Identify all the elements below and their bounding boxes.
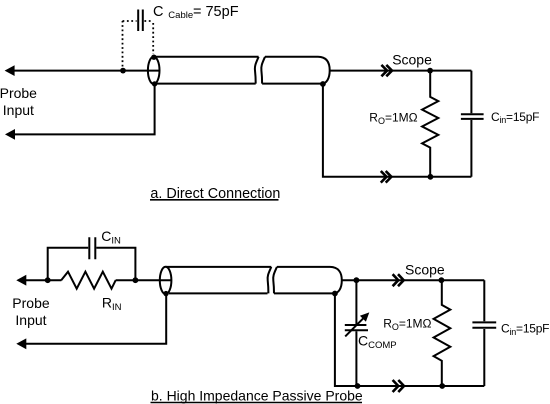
arrowhead: probe input bottom arrow (circuit a) [5, 129, 15, 140]
wire: scope right side vertical (circuit a, interrupted by C_in) [470, 71, 472, 177]
wire: scope bottom wire (circuit b) [335, 294, 484, 387]
coax cable b: break right curve [273, 267, 277, 294]
svg-text:CCOMP: CCOMP [358, 332, 397, 351]
resistor R_O (circuit a) [422, 71, 438, 177]
coax cable b: cylinder bottom line (right of break) [274, 292, 335, 294]
arrowhead: probe input top arrow (circuit a) [5, 65, 15, 76]
chevron marks on scope top wire (circuit a) [381, 65, 392, 76]
node: scope input junction dot (circuit a) [427, 68, 433, 74]
coax cable b: cylinder top line (left of break) [166, 266, 271, 268]
node: junction dot right of R_IN (circuit b) [133, 277, 139, 283]
wire: dotted vertical from junction to C_Cable left lead [122, 21, 124, 67]
wire: C_COMP branch vertical (interrupted by plates) [355, 280, 357, 386]
svg-text:Cable: Cable [168, 10, 193, 21]
resistor R_IN (circuit b) [61, 272, 115, 289]
arrowhead: probe input top arrow (circuit b) [16, 275, 26, 286]
node: junction dot at C_COMP top (circuit b) [354, 277, 360, 283]
wire: cable a shield bottom to probe return (circuit a) [12, 84, 154, 134]
wire: scope bottom wire (circuit a) [323, 84, 472, 177]
svg-text:Input: Input [15, 312, 46, 328]
wire: cable b shield bottom to probe return (circuit b) [24, 294, 167, 344]
underline for caption b [151, 402, 363, 404]
coax cable a: break right curve [261, 57, 265, 84]
coax cable b: left end ellipse [160, 267, 172, 294]
node: scope bottom junction dot (circuit a) [428, 174, 434, 180]
coax cable a: cylinder top line (left of break) [154, 56, 259, 58]
coax cable b: break left curve [268, 267, 272, 294]
chevron marks on scope top wire (circuit b) [393, 274, 404, 286]
svg-text:RIN: RIN [102, 294, 122, 313]
coax cable a: cylinder top line (right of break) and right end cap [265, 57, 330, 84]
capacitor C_COMP plates [345, 325, 368, 330]
svg-text:CIN: CIN [101, 228, 121, 247]
svg-text:b. High Impedance Passive Prob: b. High Impedance Passive Probe [151, 388, 363, 404]
svg-text:= 75pF: = 75pF [193, 4, 239, 20]
coax cable a: break left curve [255, 57, 259, 84]
wire: dotted horizontal C_Cable left lead [123, 20, 137, 22]
wire: C_IN branch right lead [96, 248, 135, 280]
arrowhead: C_COMP arrow tip [360, 312, 369, 321]
svg-text:C: C [153, 4, 163, 20]
coax cable a: cylinder bottom line (left of break) [157, 83, 256, 85]
wire: dotted vertical from C_Cable to cable shield top [152, 23, 154, 54]
node: dot at cable a shield top [151, 55, 156, 60]
node: dot at cable a shield bottom [152, 81, 157, 86]
coax cable a: cylinder bottom line (right of break) [262, 83, 323, 85]
node: junction dot left of R_IN (circuit b) [45, 277, 51, 283]
node: dot at cable b right end bottom [332, 291, 338, 297]
coax cable b: cylinder bottom line (left of break) [169, 292, 268, 294]
capacitor C_IN plates [89, 237, 95, 259]
svg-text:Probe: Probe [0, 85, 37, 101]
node: dot at cable b shield bottom [163, 291, 168, 296]
wire: cable b to scope top wire [342, 279, 485, 281]
node: scope bottom junction dot (circuit b) [439, 383, 445, 389]
underline for caption a [150, 199, 279, 201]
resistor R_O (circuit b) [434, 280, 451, 386]
wire: C_IN branch left lead [48, 248, 88, 280]
arrowhead: probe input bottom arrow (circuit b) [16, 338, 26, 349]
wire: probe input top wire (circuit b) [24, 279, 171, 281]
capacitor C_in plates (circuit a) [461, 114, 484, 119]
wire: cable a to scope top wire [330, 70, 472, 72]
wire: dotted horizontal C_Cable right lead [144, 20, 153, 22]
wire: scope right side vertical (circuit b, interrupted by C_in) [483, 280, 485, 386]
svg-text:Cin=15pF: Cin=15pF [501, 322, 549, 337]
coax cable b: cylinder top line (right of break) and right end cap [277, 267, 342, 294]
arrow: C_COMP variable adjustment arrow [345, 318, 363, 336]
node: junction dot on top wire (circuit a) [120, 68, 126, 74]
svg-text:Input: Input [3, 102, 34, 118]
node: scope input junction dot (circuit b) [439, 277, 445, 283]
wire: probe input top wire (circuit a) [12, 70, 159, 72]
svg-text:RO=1MΩ: RO=1MΩ [383, 317, 431, 332]
coax cable a: left end ellipse [148, 57, 160, 84]
chevron marks on scope bottom wire (circuit a) [381, 171, 392, 183]
svg-text:Scope: Scope [392, 52, 432, 68]
svg-text:Scope: Scope [405, 261, 445, 277]
svg-text:Probe: Probe [12, 295, 50, 311]
capacitor C_Cable plates [138, 10, 143, 32]
node: dot at cable a right end bottom [320, 81, 326, 87]
chevron marks on scope bottom wire (circuit b) [393, 380, 404, 392]
svg-text:RO=1MΩ: RO=1MΩ [369, 110, 417, 125]
capacitor C_in plates (circuit b) [472, 322, 496, 327]
svg-text:Cin=15pF: Cin=15pF [491, 110, 539, 125]
node: C_COMP bottom junction dot (circuit b) [355, 383, 361, 389]
